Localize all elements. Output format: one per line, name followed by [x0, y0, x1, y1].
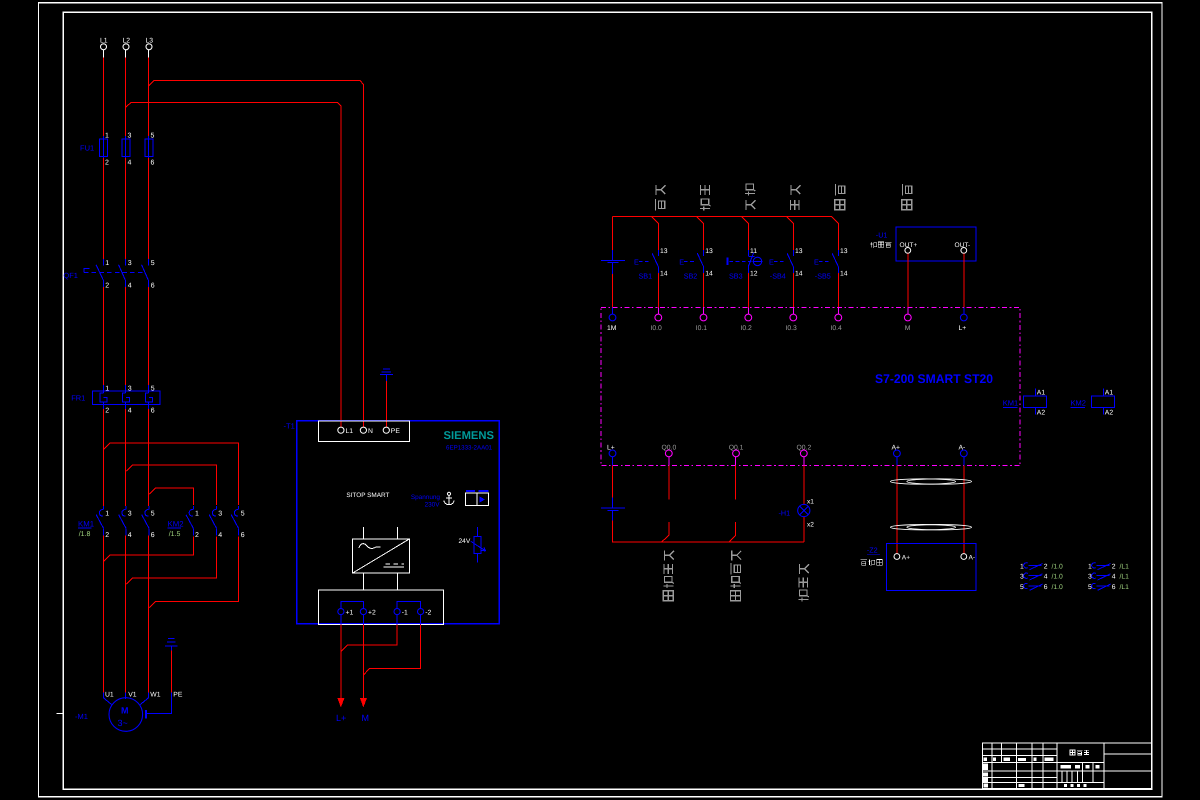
svg-text:L1: L1: [346, 428, 354, 435]
svg-text:3: 3: [128, 133, 132, 140]
svg-text:-H1: -H1: [779, 508, 791, 517]
svg-text:2: 2: [1112, 563, 1116, 570]
svg-text:W1: W1: [150, 691, 160, 698]
svg-text:4: 4: [128, 532, 132, 539]
svg-text:-1: -1: [402, 610, 408, 617]
svg-text:/1.8: /1.8: [79, 530, 91, 538]
svg-text:Q0.0: Q0.0: [662, 445, 677, 452]
svg-text:N: N: [368, 428, 373, 435]
svg-text:3~: 3~: [118, 718, 128, 728]
svg-text:24V: 24V: [459, 538, 471, 545]
svg-text:A+: A+: [892, 445, 901, 452]
svg-text:2: 2: [105, 160, 109, 167]
svg-text:L+: L+: [607, 445, 615, 452]
svg-text:SB1: SB1: [639, 272, 653, 281]
svg-text:V1: V1: [128, 691, 137, 698]
svg-text:1: 1: [105, 133, 109, 140]
svg-text:13: 13: [795, 248, 803, 255]
svg-text:M: M: [362, 713, 370, 723]
svg-text:1: 1: [105, 386, 109, 393]
svg-text:S7-200 SMART ST20: S7-200 SMART ST20: [875, 372, 993, 386]
svg-text:5: 5: [151, 260, 155, 267]
svg-text:6: 6: [151, 160, 155, 167]
svg-text:4: 4: [1044, 574, 1048, 581]
svg-text:SIEMENS: SIEMENS: [444, 430, 495, 442]
svg-text:6: 6: [241, 532, 245, 539]
svg-text:E: E: [634, 257, 639, 266]
svg-text:SB3: SB3: [729, 272, 743, 281]
svg-text:KM2: KM2: [168, 519, 184, 528]
svg-text:/L1: /L1: [1120, 563, 1130, 570]
svg-text:5: 5: [151, 511, 155, 518]
svg-text:I0.1: I0.1: [696, 325, 708, 332]
svg-text:L+: L+: [959, 325, 967, 332]
svg-text:-SB4: -SB4: [770, 272, 786, 281]
svg-text:2: 2: [1044, 563, 1048, 570]
svg-text:3: 3: [128, 511, 132, 518]
svg-text:3: 3: [1088, 574, 1092, 581]
svg-text:KM2: KM2: [1071, 398, 1086, 407]
svg-text:/1.0: /1.0: [1052, 574, 1064, 581]
svg-text:KM1: KM1: [1003, 398, 1018, 407]
svg-text:I0.0: I0.0: [651, 325, 663, 332]
svg-text:13: 13: [705, 248, 713, 255]
svg-text:+2: +2: [368, 610, 376, 617]
svg-text:QF1: QF1: [63, 271, 78, 280]
svg-text:14: 14: [840, 270, 848, 277]
svg-text:6EP1333-2AA01: 6EP1333-2AA01: [446, 445, 493, 452]
svg-text:6: 6: [1044, 584, 1048, 591]
svg-text:OUT+: OUT+: [900, 242, 918, 249]
svg-text:/L1: /L1: [1120, 574, 1130, 581]
svg-text:3: 3: [1020, 574, 1024, 581]
svg-text:5: 5: [151, 133, 155, 140]
svg-text:U1: U1: [105, 691, 114, 698]
svg-text:13: 13: [840, 248, 848, 255]
svg-text:x1: x1: [807, 498, 814, 505]
svg-text:/1.0: /1.0: [1052, 584, 1064, 591]
svg-text:230V: 230V: [425, 502, 441, 509]
svg-text:1: 1: [105, 511, 109, 518]
svg-text:2: 2: [105, 408, 109, 415]
svg-text:A-: A-: [959, 445, 966, 452]
svg-text:5: 5: [1020, 584, 1024, 591]
svg-text:2: 2: [105, 282, 109, 289]
svg-text:E: E: [814, 257, 819, 266]
svg-text:2: 2: [195, 532, 199, 539]
svg-text:L+: L+: [336, 713, 346, 723]
svg-text:SITOP SMART: SITOP SMART: [346, 492, 389, 499]
svg-text:E: E: [679, 257, 684, 266]
svg-text:-U1: -U1: [876, 230, 888, 239]
svg-text:1: 1: [105, 260, 109, 267]
svg-text:12: 12: [750, 270, 758, 277]
svg-text:4: 4: [218, 532, 222, 539]
svg-text:/L1: /L1: [1120, 584, 1130, 591]
svg-text:3: 3: [128, 260, 132, 267]
svg-text:1M: 1M: [607, 325, 617, 332]
svg-text:x2: x2: [807, 521, 814, 528]
svg-text:1: 1: [1020, 563, 1024, 570]
svg-text:3: 3: [218, 511, 222, 518]
svg-text:4: 4: [128, 408, 132, 415]
svg-text:A1: A1: [1105, 390, 1114, 397]
svg-text:1: 1: [195, 511, 199, 518]
svg-text:Spannung: Spannung: [411, 494, 441, 501]
svg-text:PE: PE: [173, 691, 183, 698]
svg-text:14: 14: [660, 270, 668, 277]
svg-text:-2: -2: [425, 610, 431, 617]
svg-text:A2: A2: [1037, 410, 1046, 417]
svg-text:-T1: -T1: [284, 422, 295, 431]
svg-text:11: 11: [750, 248, 757, 255]
svg-text:A1: A1: [1037, 390, 1046, 397]
svg-text:14: 14: [705, 270, 713, 277]
svg-text:4: 4: [1112, 574, 1116, 581]
svg-text:6: 6: [151, 408, 155, 415]
svg-text:M: M: [121, 706, 129, 716]
svg-text:FR1: FR1: [71, 394, 85, 403]
svg-text:-M1: -M1: [75, 712, 88, 721]
svg-text:4: 4: [128, 160, 132, 167]
svg-text:FU1: FU1: [80, 144, 94, 153]
svg-text:6: 6: [1112, 584, 1116, 591]
svg-text:Q0.1: Q0.1: [729, 445, 744, 452]
svg-text:PE: PE: [391, 428, 401, 435]
svg-text:E: E: [769, 257, 774, 266]
svg-text:5: 5: [241, 511, 245, 518]
svg-text:Q0.2: Q0.2: [797, 445, 812, 452]
svg-text:5: 5: [1088, 584, 1092, 591]
svg-text:13: 13: [660, 248, 668, 255]
svg-text:4: 4: [128, 282, 132, 289]
svg-text:3: 3: [128, 386, 132, 393]
svg-text:/1.0: /1.0: [1052, 563, 1064, 570]
svg-text:I0.3: I0.3: [786, 325, 798, 332]
svg-text:I0.4: I0.4: [831, 325, 843, 332]
svg-text:1: 1: [1088, 563, 1092, 570]
svg-text:A+: A+: [902, 555, 910, 562]
svg-text:A2: A2: [1105, 410, 1114, 417]
svg-text:+1: +1: [346, 610, 354, 617]
svg-text:A-: A-: [969, 555, 976, 562]
svg-text:I0.2: I0.2: [741, 325, 753, 332]
svg-text:14: 14: [795, 270, 803, 277]
svg-text:6: 6: [151, 282, 155, 289]
svg-text:6: 6: [151, 532, 155, 539]
svg-text:SB2: SB2: [684, 272, 698, 281]
svg-text:2: 2: [105, 532, 109, 539]
svg-text:-SB5: -SB5: [815, 272, 831, 281]
svg-text:-Z2: -Z2: [867, 546, 878, 555]
svg-text:M: M: [905, 325, 911, 332]
svg-text:/1.5: /1.5: [169, 530, 181, 538]
svg-text:KM1: KM1: [78, 519, 94, 528]
svg-text:5: 5: [151, 386, 155, 393]
